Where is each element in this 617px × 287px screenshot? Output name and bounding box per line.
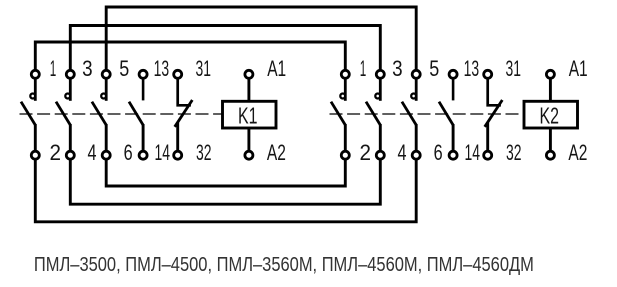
svg-text:32: 32 [196, 140, 212, 165]
contactor K2 main contact 3-4: terminal 3 [376, 70, 384, 78]
svg-text:5: 5 [429, 56, 439, 81]
contactor K1 coil terminal A1 [245, 70, 253, 78]
contactor K1 contact 5-6: moving blade (NO, open) [92, 102, 106, 125]
svg-text:14: 14 [465, 140, 481, 165]
wire: blade to terminal 6 [415, 124, 418, 155]
contactor K1 main contact 5-6: terminal 5 [102, 70, 110, 78]
svg-text:6: 6 [124, 140, 133, 165]
wire: blade to terminal 2 [34, 124, 37, 155]
contactor K2 aux contact 31-32: moving blade (NC, closed) [485, 100, 503, 127]
svg-text:3: 3 [392, 56, 403, 81]
svg-text:13: 13 [464, 56, 480, 81]
contactor K1 mechanical linkage (dashed) [20, 113, 223, 115]
contactor K1 coil terminal A2 [245, 151, 253, 159]
contactor K2 terminal 14 [449, 151, 457, 159]
wire: A1 to coil [247, 78, 250, 102]
coil K2 [524, 101, 578, 128]
svg-text:31: 31 [506, 56, 522, 81]
contactor K1 aux contact 31-32: moving blade (NC, closed) [175, 100, 193, 127]
contactor K2 contact 1-2: fixed contact hook [340, 94, 345, 99]
svg-text:A2: A2 [568, 140, 587, 165]
wire: blade to terminal 4 [379, 124, 382, 155]
wire: blade to terminal 4 [69, 124, 72, 155]
svg-text:14: 14 [155, 140, 171, 165]
contactor K1 contact 1-2: fixed contact hook [30, 94, 35, 99]
svg-text:1: 1 [50, 56, 57, 81]
wire: blade to terminal 6 [105, 124, 108, 155]
contactor K2 contact 5-6: fixed contact hook [411, 94, 416, 99]
svg-text:6: 6 [434, 140, 443, 165]
wire: A1 to coil [549, 78, 552, 102]
coil K1 [223, 101, 277, 128]
contactor K1 aux NO contact 13-14: terminal 13 [139, 70, 147, 78]
contactor K2 mechanical linkage (dashed) [330, 113, 525, 115]
contactor K1 contact 3-4: fixed contact hook [65, 94, 70, 99]
contactor K1 contact 3-4: moving blade (NO, open) [56, 102, 70, 125]
wire: rail joining K1 terminal 3 to K2 terminal 3 [70, 26, 380, 71]
contactor K1 aux contact 13-14: moving blade (NO, open) [129, 102, 143, 125]
wire: blade to terminal 14 [452, 124, 455, 155]
contactor K2 aux contact 13-14: fixed line [452, 78, 455, 101]
contactor K1 contact 5-6: fixed contact hook [101, 94, 106, 99]
wire: coil to A2 [549, 128, 552, 155]
svg-text:32: 32 [506, 140, 522, 165]
wire: blade to terminal 32 [176, 123, 179, 156]
svg-text:1: 1 [360, 56, 367, 81]
contactor K2 contact 1-2: moving blade (NO, open) [331, 102, 345, 125]
wire: rail joining K1 terminal 4 to K2 terminal 4 [70, 159, 380, 205]
contactor K1 terminal 14 [139, 151, 147, 159]
contactor K2 contact 5-6: fixed contact stem [415, 78, 418, 101]
contactor K1 aux NC contact 31-32: terminal 31 [174, 70, 182, 78]
wire: coil to A2 [247, 128, 250, 155]
contactor K2 contact 5-6: moving blade (NO, open) [402, 102, 416, 125]
contactor K1 contact 1-2: fixed contact stem [34, 78, 37, 101]
contactor K1 contact 3-4: fixed contact stem [69, 78, 72, 101]
svg-text:A1: A1 [267, 56, 286, 81]
contactor K2 aux contact 13-14: moving blade (NO, open) [439, 102, 453, 125]
contactor K1 aux contact 31-32: fixed L-stem with seat [178, 78, 191, 106]
contactor K2 aux contact 31-32: fixed L-stem with seat [488, 78, 501, 106]
wire: rail joining K1 terminal 2 to K2 terminal 6 [35, 159, 416, 222]
svg-text:4: 4 [398, 140, 407, 165]
contactor K1 terminal 4 [66, 151, 74, 159]
contactor K2 main contact 5-6: terminal 5 [412, 70, 420, 78]
contactor K2 contact 3-4: fixed contact hook [375, 94, 380, 99]
contactor K1 main contact 3-4: terminal 3 [66, 70, 74, 78]
contactor K1 main contact 1-2: terminal 1 [31, 70, 39, 78]
contactor K2 contact 3-4: fixed contact stem [379, 78, 382, 101]
svg-text:K1: K1 [238, 103, 258, 129]
contactor K2 main contact 1-2: terminal 1 [341, 70, 349, 78]
svg-text:A2: A2 [267, 140, 286, 165]
wire: blade to terminal 2 [344, 124, 347, 155]
svg-text:2: 2 [49, 140, 61, 165]
svg-text:13: 13 [154, 56, 170, 81]
wire: blade to terminal 32 [486, 123, 489, 156]
svg-text:K2: K2 [539, 103, 559, 129]
contactor K1 terminal 32 [174, 151, 182, 159]
contactor K1 contact 5-6: fixed contact stem [105, 78, 108, 101]
contactor K1 terminal 6 [102, 151, 110, 159]
svg-text:3: 3 [82, 56, 93, 81]
contactor K1 contact 1-2: moving blade (NO, open) [21, 102, 35, 125]
contactor K1 terminal 2 [31, 151, 39, 159]
wire: rail joining K1 terminal 6 to K2 terminal 2 [106, 159, 345, 186]
contactor K1 aux contact 13-14: fixed line [142, 78, 145, 101]
wire: rail joining K1 terminal 5 to K2 terminal 5 [106, 7, 416, 71]
svg-text:5: 5 [119, 56, 129, 81]
contactor K2 aux NC contact 31-32: terminal 31 [484, 70, 492, 78]
contactor K2 aux NO contact 13-14: terminal 13 [449, 70, 457, 78]
wire: blade to terminal 14 [142, 124, 145, 155]
contactor K2 coil terminal A1 [546, 70, 554, 78]
svg-text:4: 4 [88, 140, 97, 165]
contactor K2 terminal 6 [412, 151, 420, 159]
svg-text:2: 2 [359, 140, 371, 165]
contactor K2 coil terminal A2 [546, 151, 554, 159]
contactor K2 terminal 2 [341, 151, 349, 159]
wire: rail joining K1 terminal 1 to K2 terminal 1 [35, 42, 345, 71]
contactor K2 contact 3-4: moving blade (NO, open) [366, 102, 380, 125]
svg-text:ПМЛ–3500, ПМЛ–4500, ПМЛ–3560М,: ПМЛ–3500, ПМЛ–4500, ПМЛ–3560М, ПМЛ–4560М… [34, 254, 534, 276]
contactor K2 terminal 32 [484, 151, 492, 159]
contactor K2 terminal 4 [376, 151, 384, 159]
svg-text:31: 31 [196, 56, 212, 81]
contactor K2 contact 1-2: fixed contact stem [344, 78, 347, 101]
svg-text:A1: A1 [569, 56, 588, 81]
